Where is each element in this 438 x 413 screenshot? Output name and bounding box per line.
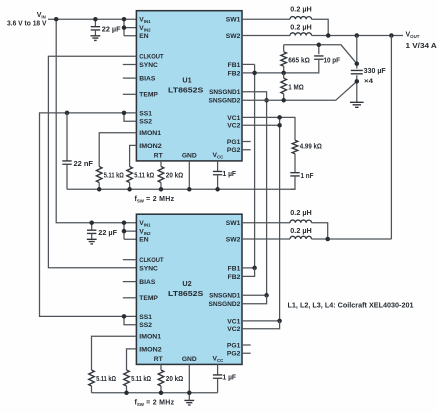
svg-text:5.11 kΩ: 5.11 kΩ [96, 376, 116, 383]
resistor 1 MOhm (FB bottom) [281, 78, 287, 94]
wire VIN2/EN tie (U1) [124, 19, 136, 36]
svg-text:0.2 µH: 0.2 µH [290, 210, 311, 217]
wire U2 SNSGND2 tie [242, 295, 267, 304]
wire U1 VC2 [242, 124, 280, 126]
wire U1 GND pin [188, 161, 190, 189]
wire U2 IMON2 resistor bottom lead [126, 386, 128, 393]
svg-text:VOUT: VOUT [406, 31, 420, 39]
wire U2 BIAS stub [123, 281, 137, 283]
wire U2 FB2 tie [242, 268, 255, 277]
wire U1 IMON2 to resistor [130, 145, 137, 166]
wire U2 TEMP stub [123, 297, 137, 299]
wire U1 PG1/PG2 stubs [242, 142, 251, 150]
wire 330uF bottom lead [356, 75, 358, 102]
wire U2 SW2 to L4 [242, 238, 290, 240]
svg-text:SW2: SW2 [226, 33, 241, 40]
inductor L2 0.2 uH [290, 33, 312, 36]
resistor 5.11 kOhm (U2 IMON1) [89, 370, 95, 386]
node FB1/FB2 tie (U1) [252, 71, 257, 76]
svg-text:FB2: FB2 [228, 70, 241, 77]
svg-text:fSW = 2 MHz: fSW = 2 MHz [135, 400, 175, 408]
svg-text:PG1: PG1 [227, 342, 241, 349]
wire FB net vertical to U2 [254, 64, 256, 268]
wire U1 TEMP stub [123, 93, 137, 95]
svg-text:PG2: PG2 [227, 351, 241, 358]
wire U1 SYNC stub [123, 64, 137, 66]
svg-text:U1: U1 [182, 76, 191, 85]
capacitor 10 pF (feedforward) [314, 56, 323, 59]
wire divider top to VOUT cap node (diagonal) [284, 45, 357, 64]
wire 10pF top lead [318, 45, 320, 54]
wire U1 SNSGND1 [242, 92, 267, 101]
capacitor 1 uF (U2 VCC) [213, 375, 222, 378]
svg-text:PG1: PG1 [227, 139, 241, 146]
wire U1 SW1 to L1 [242, 18, 290, 20]
wire IMON2 resistor bottom lead [129, 183, 131, 190]
node U2 output junction [325, 237, 330, 242]
svg-text:SS1: SS1 [139, 110, 152, 117]
node C2 junction on U2 VIN rail [89, 220, 94, 225]
svg-text:SS1: SS1 [139, 314, 152, 321]
node VIN1/VIN2 tie junctions (U1) [122, 17, 127, 30]
wire VIN input rail (U1) [48, 18, 136, 20]
node SNSGND net tie (U2) [264, 293, 269, 298]
resistor 5.11 kOhm (U1 IMON2) [127, 167, 133, 183]
node SS net junctions (U1) [65, 111, 127, 116]
node SNSGND1/2 tie (U1) [264, 98, 269, 103]
svg-text:1 MΩ: 1 MΩ [288, 84, 304, 91]
wire U1 VCC pin lead [217, 161, 219, 172]
node SS net junction (U2) [122, 314, 127, 319]
svg-text:IMON1: IMON1 [139, 334, 161, 341]
svg-text:VIN: VIN [37, 12, 46, 20]
ground (U2 GND pin) [184, 400, 194, 405]
resistor 5.11 kOhm (U1 IMON1) [96, 167, 102, 183]
wire 10pF bottom to FB node [284, 59, 319, 73]
svg-text:VC1: VC1 [227, 115, 240, 122]
svg-text:4.99 kΩ: 4.99 kΩ [300, 143, 322, 150]
wire U2 IMON2 to resistor [127, 349, 137, 370]
resistor 665 kOhm (FB top) [281, 52, 287, 66]
inductor L1 0.2 uH [290, 17, 312, 20]
wire U2 VC1 [242, 320, 280, 322]
wire U1 BIAS stub [123, 77, 137, 79]
svg-text:TEMP: TEMP [139, 92, 158, 99]
wire U2 gnd symbol stem [188, 393, 190, 401]
svg-text:1 nF: 1 nF [301, 173, 315, 180]
node FB net tie (U2) [252, 266, 257, 271]
svg-text:RT: RT [154, 152, 164, 159]
wire U2 VCC pin lead [217, 364, 219, 375]
wire SS net U1 SS1 to U2 SS1 [40, 113, 137, 317]
wire U2 1uF bottom lead [217, 378, 219, 393]
wire C2 bottom lead [91, 233, 93, 239]
svg-text:SNSGND1: SNSGND1 [209, 293, 240, 300]
wire U1 SS2 tie [124, 113, 136, 121]
svg-text:0.2 µH: 0.2 µH [290, 24, 311, 31]
svg-text:VC1: VC1 [227, 318, 240, 325]
svg-text:3.6 V to 18 V: 3.6 V to 18 V [7, 21, 47, 28]
svg-text:GND: GND [182, 152, 197, 159]
capacitor 1 uF (U1 VCC) [213, 171, 222, 174]
svg-text:SW1: SW1 [226, 220, 241, 227]
svg-text:330 µF: 330 µF [364, 68, 387, 75]
wire U2 PG1/PG2 stubs [242, 345, 251, 353]
svg-text:EN: EN [139, 237, 148, 244]
node U2 ground rail junctions [124, 391, 191, 396]
svg-text:5.11 kΩ: 5.11 kΩ [131, 376, 151, 383]
wire 1nF bottom to ground rail [291, 176, 295, 189]
svg-text:IMON2: IMON2 [139, 346, 162, 353]
svg-text:FB1: FB1 [228, 265, 241, 272]
svg-text:BIAS: BIAS [139, 76, 156, 83]
svg-text:SS2: SS2 [139, 119, 152, 126]
svg-text:SS2: SS2 [139, 322, 152, 329]
svg-text:×4: ×4 [364, 78, 373, 85]
node VC1 tie (U1) [277, 115, 282, 120]
svg-text:20 kΩ: 20 kΩ [166, 376, 184, 383]
node 330uF bottom diagonal junction [355, 79, 360, 84]
capacitor 22 uF (U1 input) [91, 27, 100, 30]
wire U1 RT pin lead [160, 161, 162, 167]
svg-text:SYNC: SYNC [139, 62, 158, 69]
svg-text:SW2: SW2 [226, 236, 241, 243]
svg-text:1 µF: 1 µF [223, 171, 237, 178]
ground (C2) [87, 239, 97, 244]
wire U2 SNSGND1 [242, 294, 267, 296]
inductor L3 0.2 uH [290, 220, 312, 223]
wire U1 VC1 to comp network [242, 117, 295, 140]
node VOUT rail junctions [326, 33, 394, 38]
capacitor 22 nF (soft-start) [62, 161, 71, 164]
wire U1 CLKOUT to U2 SYNC [48, 56, 136, 268]
wire U1 FB1 [242, 63, 255, 65]
wire U2 GND pin [188, 364, 190, 392]
node 1M bottom junction [281, 98, 286, 103]
svg-text:1 µF: 1 µF [223, 375, 237, 382]
wire 1uF bottom lead [217, 175, 219, 190]
svg-text:22 µF: 22 µF [98, 230, 118, 237]
node VIN1/VIN2 tie junctions (U2) [122, 220, 127, 233]
wire VC net vertical to U2 [279, 117, 281, 321]
ground (output cap) [350, 102, 364, 107]
resistor 5.11 kOhm (U2 IMON2) [124, 370, 130, 386]
wire L3 out to U2 SW2 node [312, 223, 328, 239]
ground (C1) [91, 36, 101, 41]
svg-text:SNSGND2: SNSGND2 [209, 301, 241, 308]
svg-text:1 V/34 A: 1 V/34 A [406, 43, 437, 50]
wire U2 RT resistor bottom lead [160, 386, 162, 393]
wire IMON1 resistor bottom lead [98, 183, 100, 190]
wire 22uF C2 top lead [91, 223, 93, 230]
svg-text:22 nF: 22 nF [74, 161, 94, 168]
wire U1 SNSGND2 to output cap gnd (diagonal) [242, 81, 357, 100]
svg-text:U2: U2 [182, 279, 191, 288]
node VIN / U2 branch junction [54, 17, 59, 22]
svg-text:5.11 kΩ: 5.11 kΩ [104, 172, 124, 179]
wire U2 SS2 tie [124, 316, 136, 324]
svg-text:0.2 µH: 0.2 µH [290, 7, 311, 14]
wire C1 bottom lead [94, 30, 96, 36]
node FB divider mid junction [281, 71, 286, 76]
wire U2 CLKOUT stub [123, 259, 137, 261]
wire 22nF top lead [66, 113, 68, 161]
svg-text:10 pF: 10 pF [324, 57, 341, 64]
svg-text:LT8652S: LT8652S [168, 289, 204, 298]
wire U2 FB1 [242, 267, 255, 269]
svg-text:fSW = 2 MHz: fSW = 2 MHz [135, 196, 175, 204]
node VC2 tie (U1) [277, 123, 282, 128]
svg-text:665 kΩ: 665 kΩ [288, 57, 310, 64]
wire U2 IMON1 to resistor [92, 336, 137, 370]
wire 22uF C1 top lead [94, 19, 96, 26]
resistor 4.99 kOhm (compensation) [292, 140, 298, 153]
wire U1 IMON1 to resistor [99, 133, 136, 167]
node C1 junction on VIN rail [93, 17, 98, 22]
wire U2 output to VOUT vertical [312, 238, 392, 240]
svg-text:20 kΩ: 20 kΩ [166, 172, 184, 179]
wire L1 out to SW2 node [312, 19, 329, 35]
node VC net tie (U2) [277, 319, 282, 324]
wire SNSGND net vertical to U2 [266, 100, 268, 295]
capacitor 1 nF (compensation) [290, 173, 299, 176]
svg-text:PG2: PG2 [227, 147, 241, 154]
wire U1 ground rail [67, 188, 295, 190]
resistor 20 kOhm (U1 RT) [158, 167, 164, 183]
op-amp U2 LT8652S (regulator IC block) [136, 214, 242, 364]
op-amp U1 LT8652S (regulator IC block) [136, 11, 242, 161]
wire U2 SW1 to L3 [242, 222, 290, 224]
wire RT resistor bottom lead [160, 183, 162, 190]
svg-text:0.2 µH: 0.2 µH [290, 228, 311, 235]
svg-text:BIAS: BIAS [139, 279, 156, 286]
svg-text:LT8652S: LT8652S [168, 86, 204, 95]
svg-text:CLKOUT: CLKOUT [139, 54, 164, 61]
svg-text:FB2: FB2 [228, 274, 241, 281]
svg-text:FB1: FB1 [228, 62, 241, 69]
svg-text:SYNC: SYNC [139, 265, 158, 272]
wire U2 RT pin lead [160, 364, 162, 370]
wire 1M leads [283, 73, 285, 100]
resistor 20 kOhm (U2 RT) [158, 370, 164, 386]
svg-text:SNSGND2: SNSGND2 [209, 98, 241, 105]
wire U2 IMON1 resistor bottom lead [91, 386, 93, 393]
svg-text:IMON2: IMON2 [139, 143, 162, 150]
capacitor 330 uF x4 (output) [351, 70, 363, 73]
svg-text:RT: RT [154, 356, 164, 363]
svg-text:SW1: SW1 [226, 17, 241, 24]
wire U1 SW2 to L2 [242, 35, 290, 37]
svg-text:GND: GND [182, 356, 197, 363]
svg-text:5.11 kΩ: 5.11 kΩ [134, 172, 154, 179]
wire 330uF top lead [356, 36, 358, 69]
wire U2 VC2 tie [242, 321, 280, 329]
capacitor 22 uF (U2 input) [87, 230, 96, 233]
svg-text:IMON1: IMON1 [139, 130, 161, 137]
svg-text:CLKOUT: CLKOUT [139, 257, 164, 264]
svg-text:TEMP: TEMP [139, 295, 158, 302]
wire VIN net down to U2 VIN1 [56, 19, 136, 223]
wire comp RC middle lead [294, 154, 296, 173]
node U1 ground rail junctions [97, 187, 220, 192]
wire 665k leads [283, 45, 285, 73]
inductor L4 0.2 uH [290, 236, 312, 239]
svg-text:SNSGND1: SNSGND1 [209, 89, 240, 96]
svg-text:VC2: VC2 [227, 326, 240, 333]
svg-text:L1, L2, L3, L4: Coilcraft XEL4: L1, L2, L3, L4: Coilcraft XEL4030-201 [288, 303, 414, 310]
node 10pF top junction [317, 43, 322, 48]
wire VIN2/EN tie (U2) [124, 223, 136, 240]
wire 22nF bottom lead [66, 164, 68, 189]
wire U2 ground rail [92, 392, 218, 394]
svg-text:VC2: VC2 [227, 123, 240, 130]
svg-text:EN: EN [139, 33, 148, 40]
svg-text:22 µF: 22 µF [102, 26, 122, 33]
wire VOUT rail [312, 35, 404, 37]
wire VOUT down to U2 output node [390, 36, 392, 240]
node 330uF top diagonal junction [355, 61, 360, 65]
wire U1 FB2 to divider node [242, 72, 284, 74]
